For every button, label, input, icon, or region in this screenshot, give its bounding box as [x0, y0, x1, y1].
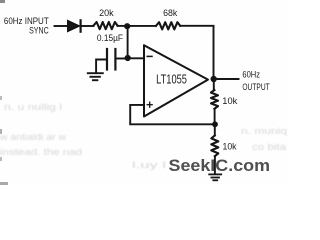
- svg-text:co bita: co bita: [252, 142, 286, 152]
- wire node A to R 68k: [127, 25, 156, 27]
- wire capacitor to ground: [96, 60, 106, 73]
- resistor 20k: [94, 22, 118, 29]
- wire output node down to R1: [213, 79, 215, 90]
- wire node B to op-amp inverting input: [128, 57, 144, 59]
- wire node C to R2: [214, 124, 216, 135]
- svg-text:SYNC: SYNC: [29, 26, 49, 37]
- svg-text:n. u nullig l: n. u nullig l: [4, 102, 62, 112]
- svg-text:10k: 10k: [222, 96, 237, 107]
- capacitor C1 0.15uF: [107, 49, 115, 70]
- edge scan smudges: [0, 0, 8, 185]
- ground G2: [209, 174, 221, 180]
- svg-text:w antialdi ar w: w antialdi ar w: [0, 132, 67, 142]
- svg-text:l.uy l: l.uy l: [132, 160, 166, 170]
- node A junction dot: [124, 23, 130, 29]
- wire output to label: [214, 78, 239, 80]
- op-amp U1 LT1055: [144, 45, 208, 116]
- svg-text:60Hz: 60Hz: [242, 70, 260, 81]
- resistor R1 10k: [211, 90, 218, 109]
- resistor 68k: [156, 22, 180, 29]
- svg-text:10k: 10k: [223, 141, 237, 152]
- ground G1: [88, 73, 103, 80]
- resistor R2 10k: [211, 136, 218, 157]
- wire node B to capacitor: [117, 58, 128, 60]
- wire R1 to node C: [214, 109, 216, 122]
- svg-text:instead. the nad: instead. the nad: [0, 147, 82, 157]
- node output junction dot: [211, 76, 217, 82]
- wire R2 to ground: [214, 156, 216, 173]
- pin -: [147, 55, 152, 57]
- faint page bleed-through text: [0, 102, 287, 170]
- svg-text:LT1055: LT1055: [156, 71, 187, 86]
- node B junction dot: [125, 55, 131, 61]
- wire input to diode: [55, 25, 68, 27]
- svg-text:OUTPUT: OUTPUT: [242, 82, 269, 93]
- wire op-amp noninverting input to divider tap: [130, 105, 213, 124]
- node C junction dot: [212, 121, 218, 127]
- svg-text:n. muniq: n. muniq: [241, 126, 287, 136]
- wire 20k to node A: [118, 25, 128, 27]
- label 60Hz INPUT SYNC: [4, 16, 49, 36]
- svg-text:68k: 68k: [163, 8, 177, 19]
- diode D1: [68, 20, 81, 31]
- wire diode to R 20k: [82, 25, 94, 27]
- label 60Hz OUTPUT: [242, 70, 269, 93]
- svg-text:20k: 20k: [99, 8, 114, 19]
- svg-text:SeekIC.com: SeekIC.com: [169, 157, 271, 175]
- pin +: [147, 102, 152, 107]
- wire 68k to output rail (feedback corner): [180, 26, 213, 76]
- svg-text:0.15µF: 0.15µF: [97, 33, 123, 44]
- wire node A drop to node B: [127, 26, 129, 58]
